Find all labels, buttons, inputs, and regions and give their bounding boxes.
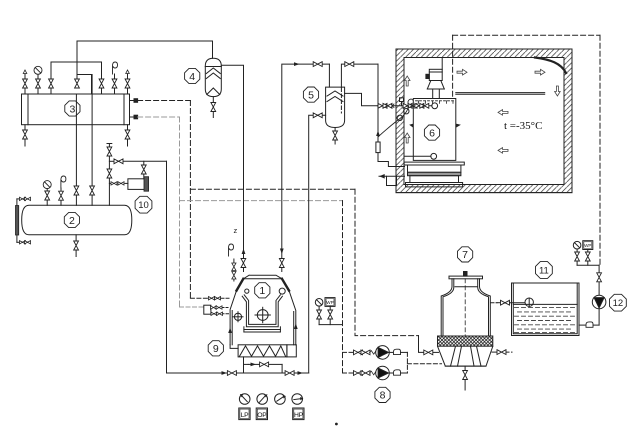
svg-text:5: 5 xyxy=(308,89,314,101)
gauge LP xyxy=(239,394,250,420)
valve V3a xyxy=(23,79,28,88)
svg-text:OP: OP xyxy=(257,412,267,419)
wire black dashed riser x190 xyxy=(189,101,191,299)
valve header xyxy=(114,159,123,164)
gauge OP xyxy=(256,394,267,420)
pump 8 upper xyxy=(376,346,390,360)
suction riser outside wall xyxy=(376,64,405,166)
valve pump2 b xyxy=(361,371,370,376)
wire condenser top stubs xyxy=(25,62,128,94)
wire long suction drop x166 xyxy=(167,161,228,373)
valve V3f xyxy=(112,79,117,88)
wire separator outlet to compressor discharge xyxy=(221,65,243,258)
valve accumulator inlet left xyxy=(313,62,329,87)
wire oil cooler bypass xyxy=(244,357,283,373)
valve pump1 a xyxy=(354,350,363,355)
evaporator lower distributor xyxy=(405,153,437,159)
wire discharge main to condenser xyxy=(77,41,213,58)
air arrow down xyxy=(555,86,561,96)
water tank 11 xyxy=(512,283,580,336)
valve vent b xyxy=(107,169,112,178)
capillary curve xyxy=(378,106,409,137)
tank float valve xyxy=(491,298,533,306)
node label 7 xyxy=(458,247,473,262)
flex pump2 xyxy=(370,371,378,375)
gauge mid xyxy=(275,394,286,405)
WP gauge set right xyxy=(573,241,599,266)
wire accumulator liquid outlet xyxy=(345,93,432,105)
flow arrow suction right xyxy=(294,62,300,66)
valve V3h xyxy=(23,130,28,139)
valve compressor discharge xyxy=(241,259,246,272)
valve accumulator inlet right xyxy=(341,62,378,87)
condenser 3 shell xyxy=(22,94,130,125)
wire receiver vent riser x109 xyxy=(107,144,112,206)
wire defrost right dashed xyxy=(599,35,601,265)
valve compressor suction xyxy=(279,259,284,268)
coil support tabs xyxy=(409,124,461,128)
wire black dashed branch y189 xyxy=(190,188,355,190)
valve tower inlet xyxy=(424,350,433,355)
wire compressor sides to cooler xyxy=(230,345,296,349)
evaporator 6 box xyxy=(413,99,456,161)
svg-text:7: 7 xyxy=(462,249,468,261)
svg-text:WP: WP xyxy=(584,243,591,248)
node label 5 xyxy=(303,87,318,102)
wire tower inlet xyxy=(419,336,424,353)
air arrow up 1 xyxy=(404,76,410,86)
component 10 float chamber xyxy=(109,161,148,191)
check valve pump2 xyxy=(389,370,407,375)
ceiling corner curve xyxy=(535,58,566,74)
wire dashed riser x342 xyxy=(342,201,344,373)
wire receiver drain xyxy=(74,235,79,257)
air arrow left 2 xyxy=(498,148,508,154)
gauge PI2 xyxy=(43,181,51,206)
accumulator 5 shell xyxy=(326,87,345,127)
gauge PI3 xyxy=(34,66,42,74)
node label 2 xyxy=(64,212,79,227)
wire condenser drain valves xyxy=(25,125,128,146)
valve oil right xyxy=(285,371,294,376)
wire black dashed riser x355 xyxy=(355,189,419,335)
air duct shelf xyxy=(456,93,545,95)
node label 8 xyxy=(375,387,390,402)
wire gray dashed branch y200 xyxy=(180,200,343,202)
valve V3c xyxy=(49,79,54,88)
economizer port dashed xyxy=(190,297,229,300)
pump 12 xyxy=(579,265,606,327)
valve pump1 b xyxy=(361,350,370,355)
svg-text:z: z xyxy=(234,226,238,235)
oil supply manifold box xyxy=(180,305,229,315)
tank water dashes xyxy=(515,308,575,333)
flex pump1 xyxy=(370,351,378,355)
wire accumulator oil return xyxy=(309,113,326,373)
node label 11 xyxy=(536,262,553,279)
wire header y161 xyxy=(109,160,166,162)
wire condenser to receiver pipes xyxy=(76,75,92,206)
evaporator plinth xyxy=(404,162,464,187)
flow arrow compressor right side xyxy=(294,324,298,330)
svg-text:WP: WP xyxy=(326,300,333,305)
node condenser water stubs xyxy=(130,99,138,119)
valve vent a xyxy=(107,147,112,156)
wire condenser inlet header xyxy=(51,41,102,94)
node label 12 xyxy=(610,294,627,311)
wire water dashed stub2 xyxy=(138,116,180,118)
svg-text:HP: HP xyxy=(294,412,304,419)
node label 6 xyxy=(424,125,439,140)
svg-text:LP: LP xyxy=(241,412,249,419)
drain trap xyxy=(379,174,405,186)
separator 4 drain valve xyxy=(211,97,216,118)
valve V3g xyxy=(125,79,130,88)
svg-text:12: 12 xyxy=(613,298,624,309)
svg-text:10: 10 xyxy=(138,200,149,211)
check valve pump1 xyxy=(389,349,407,354)
defrost dashed drop xyxy=(452,35,454,98)
flow arrow discharge up xyxy=(242,249,246,255)
wire pump discharge header xyxy=(407,352,441,373)
air arrow right 1 xyxy=(457,69,467,75)
node label 3 xyxy=(65,101,80,116)
valve V3d xyxy=(75,79,80,88)
water pumps suction dashed xyxy=(343,352,354,373)
air arrow right 2 xyxy=(535,69,545,75)
compressor 1 body xyxy=(230,275,296,345)
svg-text:6: 6 xyxy=(429,127,435,139)
wire water dashed stub1 xyxy=(138,100,191,102)
node label 10 xyxy=(135,196,152,213)
valve pump2 a xyxy=(354,371,363,376)
air arrow up 2 xyxy=(404,133,410,143)
receiver 2 shell xyxy=(22,205,132,235)
valve accumulator drain xyxy=(333,128,338,145)
svg-text:2: 2 xyxy=(69,215,75,227)
svg-text:3: 3 xyxy=(69,103,75,115)
wire oil line bottom y373 xyxy=(222,371,309,375)
air arrow left 1 xyxy=(498,110,508,116)
valve V3b xyxy=(36,79,41,88)
relief flag on receiver xyxy=(59,176,66,205)
compressor oil flag assembly xyxy=(229,244,237,281)
svg-text:9: 9 xyxy=(213,343,219,355)
tower fill pack xyxy=(438,336,493,346)
tower basin xyxy=(438,346,493,366)
relief caps condenser xyxy=(23,70,129,74)
liquid feed valves at wall xyxy=(377,98,428,108)
valve receiver inlet a xyxy=(74,186,79,195)
svg-text:11: 11 xyxy=(539,266,549,277)
valve V3e xyxy=(99,79,104,88)
svg-text:4: 4 xyxy=(189,71,195,83)
svg-text:1: 1 xyxy=(259,285,265,297)
pump 8 lower xyxy=(376,366,390,380)
tower drain valve xyxy=(463,366,468,390)
svg-text:8: 8 xyxy=(380,390,386,402)
cold room insulated wall xyxy=(396,49,572,193)
valve bypass xyxy=(260,362,269,367)
node label 4 xyxy=(185,68,200,83)
artifact dot xyxy=(335,423,338,426)
oil cooler 9 xyxy=(238,345,296,357)
relief flag on condenser xyxy=(113,62,118,74)
tower overflow right xyxy=(492,350,512,355)
valve V3i xyxy=(125,130,130,139)
cooling tower 7 shell xyxy=(441,272,490,337)
wire defrost top dashed xyxy=(453,34,600,36)
fan unit xyxy=(426,58,444,99)
svg-text:t =-35°C: t =-35°C xyxy=(504,120,542,132)
evaporator feed distributor xyxy=(432,103,438,109)
wire suction from accumulator xyxy=(282,64,330,271)
WP gauge set left xyxy=(315,298,342,325)
node label 9 xyxy=(208,341,223,356)
valve oil left xyxy=(227,371,236,376)
valve receiver inlet b xyxy=(90,186,95,195)
flow arrow suction down xyxy=(280,249,284,255)
oil separator 4 shell xyxy=(205,58,221,96)
level gauge on receiver xyxy=(16,197,31,244)
flow arrow compressor left side xyxy=(228,328,232,334)
gauge HP xyxy=(292,394,304,420)
node label 1 xyxy=(255,283,270,298)
wire gray dashed riser x179 xyxy=(179,117,181,307)
